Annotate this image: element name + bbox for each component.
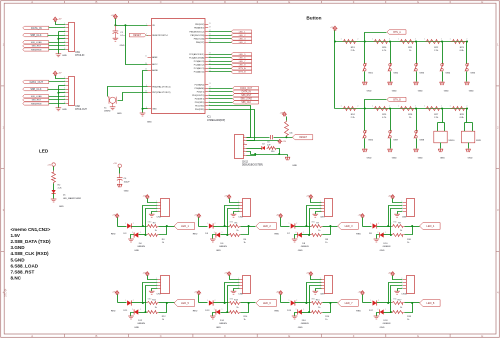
junction <box>224 302 226 304</box>
svg-text:C: C <box>160 334 162 338</box>
svg-text:GND: GND <box>292 165 297 167</box>
svg-text:1: 1 <box>238 278 239 280</box>
switch SW3 <box>416 42 418 64</box>
LED D16 GREEN <box>298 309 302 314</box>
svg-text:2: 2 <box>357 39 358 41</box>
svg-text:2: 2 <box>320 204 321 206</box>
svg-text:1: 1 <box>207 223 208 225</box>
junction <box>389 41 391 43</box>
svg-text:GND: GND <box>62 55 67 57</box>
svg-text:CN6: CN6 <box>402 217 407 219</box>
junction <box>390 311 392 313</box>
wire <box>49 96 66 98</box>
svg-text:2: 2 <box>64 27 65 29</box>
svg-text:18: 18 <box>209 26 211 28</box>
svg-text:LED_8: LED_8 <box>239 65 246 67</box>
svg-text:S88_CLK: S88_CLK <box>30 87 41 91</box>
wire <box>234 212 240 215</box>
svg-text:2: 2 <box>441 39 442 41</box>
svg-text:PB7(XTAL2/TOSC2): PB7(XTAL2/TOSC2) <box>152 91 171 94</box>
wire <box>311 276 322 280</box>
svg-text:2: 2 <box>244 139 245 141</box>
net label LED_5 <box>174 300 195 307</box>
svg-text:4: 4 <box>64 88 65 90</box>
net label S88_LOAD <box>23 95 49 98</box>
junction <box>114 24 116 26</box>
ground at SW6 <box>362 148 367 150</box>
svg-text:3: 3 <box>64 30 65 32</box>
svg-text:GND: GND <box>380 250 385 252</box>
LED D7 RED <box>291 223 295 228</box>
svg-text:1: 1 <box>156 201 157 203</box>
svg-text:4: 4 <box>238 210 239 212</box>
resistor R9 1k <box>392 225 405 228</box>
junction <box>226 311 228 313</box>
LED D5 RED <box>209 223 213 228</box>
+5V supply at R29 <box>282 112 286 116</box>
svg-text:GREEN: GREEN <box>383 246 391 248</box>
wire <box>48 35 66 37</box>
ground at CN12 <box>287 155 289 157</box>
svg-text:1: 1 <box>64 77 65 79</box>
svg-text:2: 2 <box>133 300 134 302</box>
junction <box>390 234 392 236</box>
resistor R27 2.2k <box>426 107 441 111</box>
wire <box>117 295 119 303</box>
svg-text:LED: LED <box>39 149 49 154</box>
svg-text:GND: GND <box>468 158 473 160</box>
LED D10 GREEN <box>380 232 384 237</box>
svg-text:LED_7: LED_7 <box>345 301 353 305</box>
net label S88_RST <box>23 98 49 101</box>
wire CN12 ground bus <box>247 152 251 155</box>
wire PD1 to CN12 <box>209 106 251 138</box>
svg-text:3: 3 <box>238 284 239 286</box>
svg-text:PB3(MOSI/OC2): PB3(MOSI/OC2) <box>189 31 204 33</box>
connector CN7 <box>161 276 170 294</box>
svg-text:AVCC: AVCC <box>152 63 158 66</box>
switch SW10 pushbutton <box>442 109 444 123</box>
svg-text:SW3: SW3 <box>419 72 425 74</box>
svg-text:2: 2 <box>377 309 378 311</box>
junction <box>466 41 468 43</box>
wire <box>214 226 229 228</box>
svg-text:1: 1 <box>341 106 342 108</box>
junction <box>364 41 366 43</box>
wire <box>241 303 249 313</box>
resistor R26 1k <box>400 107 415 111</box>
svg-text:RED: RED <box>275 233 280 235</box>
svg-text:GND: GND <box>147 122 152 124</box>
connector CN3 <box>161 199 170 217</box>
wire <box>116 19 148 26</box>
wire <box>159 302 175 304</box>
svg-text:E: E <box>288 334 290 338</box>
wire <box>365 33 387 42</box>
junction <box>224 225 226 227</box>
svg-text:GND: GND <box>440 158 445 160</box>
wire <box>49 49 66 51</box>
junction <box>387 302 389 304</box>
ground at D8 <box>295 235 298 239</box>
svg-text:S88_CLK: S88_CLK <box>241 102 251 104</box>
wire <box>146 209 158 235</box>
net labels LED_1-LED_4 at port B <box>209 31 232 33</box>
svg-text:2: 2 <box>357 106 358 108</box>
resistor R3 1k <box>147 225 159 228</box>
svg-text:RED: RED <box>193 310 198 312</box>
svg-text:LED_2: LED_2 <box>239 35 246 37</box>
wire <box>117 218 119 227</box>
wire <box>49 27 66 29</box>
junction <box>415 108 417 110</box>
wire <box>152 289 158 292</box>
svg-text:1: 1 <box>450 106 451 108</box>
svg-text:GREEN: GREEN <box>219 323 227 325</box>
svg-text:2: 2 <box>215 300 216 302</box>
svg-text:3.GND: 3.GND <box>11 245 26 250</box>
resistor R30 560 <box>267 147 277 150</box>
svg-text:2: 2 <box>377 232 378 234</box>
wire <box>49 103 66 105</box>
svg-text:2: 2 <box>415 39 416 41</box>
wire <box>132 226 147 228</box>
resistor R18 1k <box>392 311 405 314</box>
wire <box>362 295 364 303</box>
ground at D12 <box>131 313 135 317</box>
junction <box>387 225 389 227</box>
connector CN12 DEBUG(BOOSTER) <box>235 135 244 159</box>
svg-text:AREF: AREF <box>152 56 158 59</box>
resistor R6 1k <box>229 234 241 237</box>
svg-text:1: 1 <box>398 106 399 108</box>
net label S88_CLK <box>23 33 48 36</box>
net label DATA_OUT <box>23 80 49 83</box>
ground at CN3 <box>149 213 155 215</box>
svg-text:GND: GND <box>59 206 64 208</box>
svg-text:PB5(SCK): PB5(SCK) <box>195 24 205 26</box>
svg-text:1: 1 <box>125 223 126 225</box>
svg-text:GND: GND <box>120 45 125 47</box>
junction <box>334 41 336 43</box>
svg-text:7: 7 <box>64 99 65 101</box>
junction <box>364 108 366 110</box>
junction <box>305 302 307 304</box>
svg-text:PC0(ADC0): PC0(ADC0) <box>194 71 205 74</box>
svg-text:3: 3 <box>238 207 239 209</box>
wire <box>398 212 403 215</box>
svg-text:PD4(XCK/T0): PD4(XCK/T0) <box>192 95 205 97</box>
wire <box>139 312 147 314</box>
junction <box>329 302 331 304</box>
wire <box>234 289 240 292</box>
svg-text:SW9: SW9 <box>476 140 482 142</box>
resistor R13 1k <box>229 302 241 305</box>
net label LED_1 <box>174 223 195 230</box>
junction <box>389 108 391 110</box>
LED D18 GREEN <box>380 309 384 314</box>
+5V supply at D11 <box>115 291 119 295</box>
svg-text:RED: RED <box>111 233 116 235</box>
svg-text:3: 3 <box>402 207 403 209</box>
svg-text:5: 5 <box>64 37 65 39</box>
net label BTN_B <box>387 97 406 101</box>
svg-text:GND: GND <box>152 108 157 110</box>
net label LED_7 <box>338 300 359 307</box>
resistor R2 2.2k <box>53 167 55 171</box>
junction <box>145 234 147 236</box>
+5V supply at D7 <box>279 214 283 218</box>
resistor R16 1k <box>311 311 323 314</box>
wire GND pin <box>143 108 148 110</box>
LED D11 RED <box>127 300 131 305</box>
wire <box>228 209 240 235</box>
wire <box>230 276 240 280</box>
svg-text:RED: RED <box>356 233 361 235</box>
svg-text:GND: GND <box>444 91 449 93</box>
svg-text:E: E <box>288 0 290 4</box>
svg-text:<memo CN1,CN2>: <memo CN1,CN2> <box>11 227 51 232</box>
wire <box>147 35 148 37</box>
+5V supply at connector CN1 <box>53 17 57 21</box>
svg-text:GND: GND <box>469 91 474 93</box>
svg-text:2.S88_DATA (TXD): 2.S88_DATA (TXD) <box>11 239 51 244</box>
svg-text:1: 1 <box>398 39 399 41</box>
svg-text:RESET: RESET <box>133 35 141 37</box>
svg-text:BTN_B: BTN_B <box>393 99 401 101</box>
wire <box>53 184 55 191</box>
+5V supply at CN4 <box>227 195 231 199</box>
svg-text:2: 2 <box>214 232 215 234</box>
svg-text:2: 2 <box>296 223 297 225</box>
+5V supply at CN7 <box>145 272 149 276</box>
svg-text:1: 1 <box>238 201 239 203</box>
net label S88_RST <box>23 44 49 47</box>
junction <box>57 38 59 40</box>
svg-text:BTN_A: BTN_A <box>239 67 247 70</box>
resistor R11 1k <box>147 302 159 305</box>
svg-text:PD1(TXD): PD1(TXD) <box>195 106 205 108</box>
svg-text:1: 1 <box>222 309 223 311</box>
svg-text:1: 1 <box>125 300 126 302</box>
net label RESET <box>292 135 312 140</box>
svg-text:PC4(ADC4/SDA): PC4(ADC4/SDA) <box>189 57 205 60</box>
svg-text:3: 3 <box>320 207 321 209</box>
svg-text:8: 8 <box>64 48 65 50</box>
wire <box>393 199 403 203</box>
ground at D6 <box>213 235 216 239</box>
resistor R10 1k <box>392 234 405 237</box>
junction <box>411 302 413 304</box>
svg-text:GREEN: GREEN <box>137 323 145 325</box>
svg-text:GND: GND <box>62 109 67 111</box>
net labels S88 bus at port D <box>209 88 233 90</box>
wire <box>280 295 282 303</box>
svg-text:GREEN: GREEN <box>301 246 309 248</box>
LED D17 RED <box>373 300 377 305</box>
svg-text:1: 1 <box>385 232 386 234</box>
wire <box>274 137 293 139</box>
+5V supply at CN6 <box>391 195 395 199</box>
svg-text:4: 4 <box>244 147 245 149</box>
svg-text:GREEN: GREEN <box>219 246 227 248</box>
svg-text:CN9: CN9 <box>320 294 325 296</box>
wire <box>311 199 322 203</box>
junction reset node <box>285 136 287 138</box>
wire <box>148 199 158 203</box>
svg-text:LED_6: LED_6 <box>263 301 271 305</box>
wire <box>228 286 240 313</box>
wire AGND to ground <box>143 71 148 113</box>
svg-text:GND: GND <box>124 191 129 193</box>
wire <box>391 209 403 235</box>
svg-text:2: 2 <box>132 232 133 234</box>
wire <box>323 302 338 304</box>
svg-text:2: 2 <box>441 106 442 108</box>
wire <box>241 226 256 228</box>
svg-text:RESET/PCINT14: RESET/PCINT14 <box>152 35 168 37</box>
junction <box>308 311 310 313</box>
svg-text:2: 2 <box>156 281 157 283</box>
wire GND bus <box>59 85 66 87</box>
svg-text:PD5(T1): PD5(T1) <box>197 91 205 93</box>
wire <box>310 286 322 313</box>
connector CN9 <box>325 276 333 294</box>
svg-text:1: 1 <box>402 201 403 203</box>
svg-text:RESERVE: RESERVE <box>31 49 42 51</box>
svg-text:GND: GND <box>367 91 372 93</box>
capacitor C4 100uF <box>119 168 121 174</box>
LED D3 RED <box>127 223 131 228</box>
svg-text:1: 1 <box>372 39 373 41</box>
capacitor C6 0.1u <box>247 137 270 139</box>
connector CN4 <box>243 199 251 217</box>
ground at CN9 <box>313 290 319 292</box>
wire <box>384 312 392 314</box>
svg-text:GND: GND <box>216 327 221 329</box>
svg-text:RED: RED <box>275 310 280 312</box>
svg-text:AGND: AGND <box>152 69 158 72</box>
svg-text:PD7(AIN1): PD7(AIN1) <box>195 83 205 86</box>
svg-text:LED_4: LED_4 <box>426 224 434 228</box>
svg-text:7: 7 <box>64 45 65 47</box>
switch SW7 <box>390 109 392 131</box>
junction <box>415 41 417 43</box>
svg-text:2: 2 <box>214 309 215 311</box>
svg-text:CN5: CN5 <box>320 217 325 219</box>
ground at D4 <box>131 235 135 239</box>
ground at SW4 <box>440 81 445 83</box>
svg-text:1: 1 <box>402 278 403 280</box>
svg-text:2: 2 <box>466 39 467 41</box>
svg-text:CN4: CN4 <box>238 217 243 219</box>
wire <box>159 303 167 313</box>
svg-text:4: 4 <box>320 210 321 212</box>
svg-text:BTN_B: BTN_B <box>239 72 247 74</box>
resistor R23 6.8k <box>451 40 467 44</box>
svg-text:2: 2 <box>296 300 297 302</box>
ground at X1 <box>110 106 116 108</box>
wire <box>221 234 229 236</box>
resistor R20 4.7k <box>374 40 389 44</box>
svg-text:1: 1 <box>207 300 208 302</box>
wire <box>389 283 403 303</box>
LED D4 GREEN <box>134 232 138 237</box>
svg-text:4: 4 <box>238 287 239 289</box>
svg-text:PB1(OC1A): PB1(OC1A) <box>194 37 205 40</box>
wire <box>132 302 147 304</box>
svg-text:2: 2 <box>378 300 379 302</box>
svg-text:GND: GND <box>134 250 139 252</box>
resistor R15 1k <box>311 302 323 305</box>
svg-text:5: 5 <box>244 150 245 152</box>
svg-text:A: A <box>31 0 33 4</box>
wire <box>49 81 66 83</box>
+5V supply at CN9 <box>309 272 313 276</box>
ground at C4 <box>117 183 122 185</box>
svg-text:1: 1 <box>385 309 386 311</box>
svg-text:CN7: CN7 <box>157 294 162 296</box>
junction <box>441 41 443 43</box>
resistor R25 4.7k <box>374 107 389 111</box>
resistor R22 2.2k <box>426 40 441 44</box>
svg-text:SW7: SW7 <box>393 139 399 141</box>
wire <box>49 99 66 101</box>
svg-text:LED_6: LED_6 <box>239 58 246 60</box>
wire <box>302 234 311 236</box>
net label BTN_A <box>387 30 406 34</box>
switch SW4 <box>442 42 444 64</box>
svg-text:SW4: SW4 <box>445 72 451 74</box>
LED D12 GREEN <box>134 309 138 314</box>
ground at D1 <box>51 198 57 200</box>
wire PD0 to CN12 <box>209 110 255 141</box>
svg-text:4: 4 <box>402 287 403 289</box>
svg-text:PC5(ADC5/SCL): PC5(ADC5/SCL) <box>189 53 204 56</box>
wire <box>295 302 311 304</box>
wire <box>323 303 331 313</box>
svg-text:SW8: SW8 <box>419 139 425 141</box>
svg-text:RED: RED <box>356 310 361 312</box>
svg-text:3: 3 <box>156 284 157 286</box>
junction <box>248 302 250 304</box>
wire <box>316 289 322 292</box>
svg-text:GND: GND <box>216 250 221 252</box>
net labels LED_5-LED_8 BTN_A BTN_B at port C <box>209 54 232 56</box>
svg-text:LED_5: LED_5 <box>181 301 189 305</box>
svg-text:1: 1 <box>289 223 290 225</box>
wire <box>398 289 403 292</box>
wire AVCC feed <box>126 26 148 65</box>
ground at CN1 <box>56 53 62 55</box>
svg-text:S88_LOAD: S88_LOAD <box>240 98 252 101</box>
svg-text:LED_8: LED_8 <box>426 301 434 305</box>
svg-text:GND: GND <box>418 158 423 160</box>
svg-text:4: 4 <box>402 210 403 212</box>
svg-text:5: 5 <box>64 91 65 93</box>
resistor R4 1k <box>147 234 159 237</box>
svg-text:4.S88_CLK (RXD): 4.S88_CLK (RXD) <box>11 251 50 256</box>
svg-text:LED_4: LED_4 <box>239 42 246 44</box>
LED D1 LED_MAINPOWER <box>51 190 55 193</box>
+5V supply at connector CN2 <box>53 71 57 75</box>
wire <box>139 234 147 236</box>
wire <box>323 226 338 228</box>
svg-text:CN1: CN1 <box>75 52 80 54</box>
svg-text:1: 1 <box>341 39 342 41</box>
resistor R24 2.2k <box>343 107 357 111</box>
svg-text:S88_RST: S88_RST <box>241 95 252 97</box>
